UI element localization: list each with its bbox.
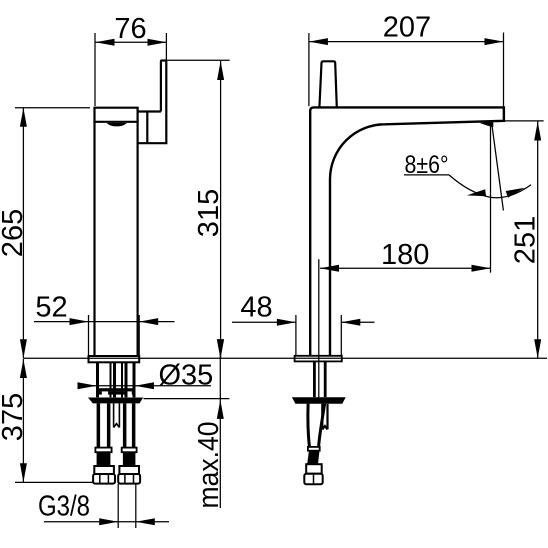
spray angle line [492, 126, 503, 211]
angle label 8 plus-minus 6 degrees [404, 151, 449, 179]
front view lever handle [161, 61, 166, 144]
front view left hose crimp [97, 452, 111, 466]
dimension 375 [0, 359, 93, 482]
front view left supply hose [97, 403, 111, 447]
svg-text:207: 207 [383, 11, 431, 43]
front view left connector body [94, 466, 114, 474]
dimension 180 [319, 126, 491, 399]
front view left connector nut [93, 474, 115, 484]
svg-text:max.40: max.40 [193, 422, 225, 509]
side view connector body [306, 464, 322, 474]
svg-text:76: 76 [114, 13, 146, 45]
svg-text:265: 265 [0, 209, 29, 257]
dimension 48 [232, 291, 375, 356]
front view body column [93, 108, 138, 356]
svg-text:375: 375 [0, 393, 29, 441]
front view right supply hose [123, 403, 135, 447]
front view right hose collar [122, 448, 137, 453]
side view aerator wedge [479, 122, 493, 127]
side view gasket [292, 397, 346, 404]
front view handle boss [137, 112, 168, 144]
dimension 76 [95, 13, 167, 106]
front view base plate [89, 356, 140, 362]
side view hose crimp [307, 451, 319, 465]
svg-text:48: 48 [240, 291, 272, 323]
side view hose collar [308, 447, 320, 451]
front view gasket [88, 398, 143, 404]
mounting surface line [23, 357, 547, 359]
svg-text:315: 315 [193, 189, 225, 237]
side view fixing stud [322, 404, 327, 430]
side view lever handle [319, 61, 336, 107]
dimension diameter 35 [78, 359, 214, 391]
svg-text:52: 52 [35, 292, 67, 324]
front view right hose crimp [123, 452, 135, 466]
front view mounting nut [96, 388, 136, 394]
side view body and spout outline [310, 107, 504, 356]
front view mounting shaft tubes [96, 362, 136, 397]
front view right connector nut [118, 474, 140, 484]
svg-text:Ø35: Ø35 [159, 359, 214, 391]
front view left hose collar [95, 448, 111, 453]
front view aerator outlet arc [107, 123, 127, 127]
svg-text:G3/8: G3/8 [38, 491, 90, 523]
front view center fixing stud [114, 403, 120, 427]
dimension 52 [34, 292, 175, 357]
dimension max.40 [144, 339, 230, 508]
angle dimension arc [449, 175, 531, 199]
front view spout underside line [93, 121, 138, 123]
side view shaft tubes [313, 361, 327, 397]
side view base plate [295, 356, 342, 362]
dimension 251 [505, 121, 544, 358]
front view right connector body [119, 466, 139, 474]
side view connector nut [304, 474, 322, 485]
dimension G3/8 [38, 484, 169, 528]
dimension 207 [309, 11, 504, 122]
dimension 265 [0, 108, 90, 359]
side view flexible hose [308, 404, 325, 447]
svg-text:251: 251 [510, 216, 542, 264]
dimension 315 [166, 60, 230, 358]
svg-text:180: 180 [381, 239, 429, 271]
